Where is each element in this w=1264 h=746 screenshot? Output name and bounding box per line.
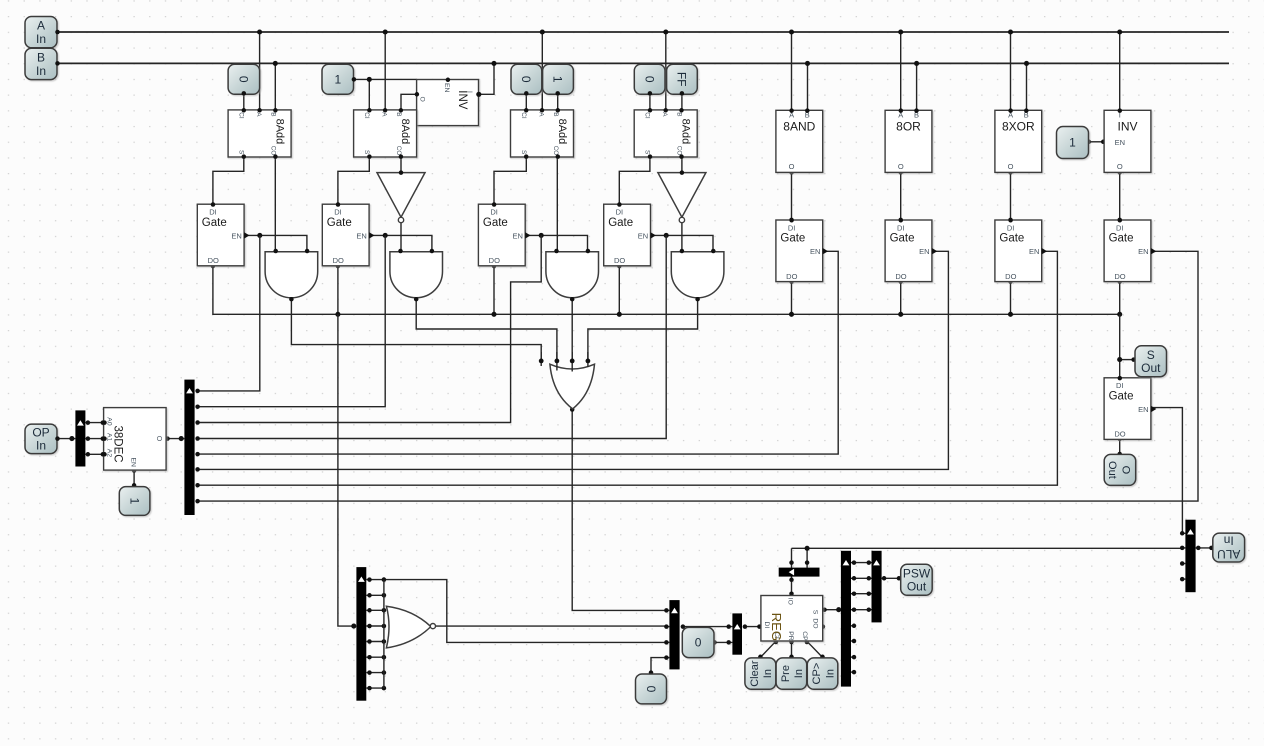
decoder 38DEC (rot 90) bbox=[104, 408, 167, 471]
svg-text:CI: CI bbox=[237, 112, 244, 119]
wire: constant 0 to flag merger pin4 bbox=[651, 658, 666, 674]
svg-text:CP: CP bbox=[801, 631, 808, 641]
NOR input pin dots bbox=[382, 577, 387, 582]
wire: AND1 out to OR4 in1 bbox=[291, 299, 541, 361]
wire: A bus tap x=666 bbox=[665, 32, 667, 110]
wire: B bus tap x=808 bbox=[807, 63, 809, 110]
svg-text:0: 0 bbox=[642, 76, 656, 83]
tri-state Gate1 bbox=[197, 204, 244, 266]
wire: decoder out1 to Gate2 EN bbox=[198, 235, 386, 406]
wire: width merger out to REG DI bbox=[745, 626, 761, 628]
svg-text:S: S bbox=[363, 150, 370, 154]
wire: constant to adder pin x=650 bbox=[649, 93, 651, 110]
AND gate cx=291 bbox=[265, 252, 318, 298]
svg-text:S: S bbox=[1147, 348, 1155, 362]
svg-text:In: In bbox=[36, 439, 46, 453]
wire: B bus tap x=275 bbox=[274, 63, 276, 110]
junction on A bus x=901 bbox=[898, 29, 903, 34]
svg-text:CP>: CP> bbox=[811, 663, 823, 685]
svg-text:DI: DI bbox=[490, 208, 498, 217]
svg-text:S: S bbox=[811, 610, 818, 615]
junction DO bus x=619 bbox=[617, 312, 622, 317]
svg-text:I: I bbox=[466, 91, 473, 93]
wire: 8Add1 CO to AND1 input bbox=[274, 157, 276, 252]
wire: decoder out3 to Gate4 EN bbox=[198, 235, 667, 438]
wire: REG PR to Pre In bbox=[791, 641, 793, 657]
svg-text:Gate: Gate bbox=[202, 217, 227, 229]
wire: adder S x=650 to Gate DI bbox=[619, 157, 650, 204]
svg-text:S: S bbox=[520, 150, 527, 154]
wire: OR4 output to flag merger bbox=[572, 409, 666, 611]
tri-state Gate4 bbox=[604, 204, 651, 266]
svg-text:DO: DO bbox=[489, 256, 500, 265]
svg-text:Gate: Gate bbox=[483, 217, 508, 229]
logic unit INV bbox=[1104, 110, 1151, 172]
svg-text:DO: DO bbox=[1005, 272, 1016, 281]
svg-text:Clear: Clear bbox=[749, 660, 761, 687]
svg-text:8Add: 8Add bbox=[680, 119, 692, 145]
input tunnel Pre In bbox=[776, 658, 807, 689]
register REG (rot 90) bbox=[761, 596, 823, 642]
svg-text:EN: EN bbox=[1029, 247, 1039, 256]
wire: to S Out tunnel bbox=[1120, 359, 1136, 361]
wire: AND4 out to OR4 in4 bbox=[588, 299, 698, 361]
junction IO line bbox=[805, 546, 810, 551]
svg-text:In: In bbox=[36, 32, 46, 46]
wire: Gate EN y=235 x=525 bbox=[525, 235, 587, 252]
wire: logic out to Gate DI x=901 bbox=[900, 172, 902, 220]
junction on B bus x=917 bbox=[914, 61, 919, 66]
adder 8Add1 (rot 90) bbox=[228, 110, 291, 157]
wire: PSW splitter to PSW Out bbox=[882, 577, 901, 579]
wire: Gate9 DO to O Out tunnel bbox=[1119, 439, 1121, 455]
svg-text:B: B bbox=[395, 112, 402, 116]
adder 8Add2 (rot 90) bbox=[354, 110, 417, 157]
wire: constant 0 to width merger pin2 bbox=[715, 641, 733, 643]
junction on A bus x=385 bbox=[383, 29, 388, 34]
svg-text:O: O bbox=[898, 162, 904, 171]
inverter after 8Add4 CO bbox=[658, 173, 706, 218]
splitter PSW 8-bit bbox=[841, 551, 851, 687]
tri-state Gate8 bbox=[1104, 220, 1151, 282]
wire: constant to adder pin x=682 bbox=[681, 93, 683, 110]
OR4 input stubs bbox=[540, 352, 542, 366]
input tunnel Clear In bbox=[745, 658, 776, 689]
wire: Gate EN y=235 x=369 bbox=[369, 235, 432, 252]
svg-text:EN: EN bbox=[231, 231, 241, 240]
wire: const 1 to INV EN bbox=[1089, 141, 1105, 143]
inverter after 8Add2 CO bbox=[377, 173, 425, 218]
wire: ALU splitter to ALU In tunnel bbox=[1196, 547, 1213, 549]
svg-text:O: O bbox=[1117, 162, 1123, 171]
constant 1 for INV EN bbox=[1057, 127, 1089, 159]
svg-text:A: A bbox=[537, 112, 544, 117]
junction on B bus x=1026 bbox=[1024, 61, 1029, 66]
svg-text:DO: DO bbox=[333, 256, 344, 265]
svg-text:CI: CI bbox=[363, 112, 370, 119]
svg-text:Gate: Gate bbox=[1109, 390, 1134, 402]
junction x=369 y=79 bbox=[367, 77, 372, 82]
wire: 8Add2 CO to inverter bbox=[400, 157, 402, 173]
svg-text:PSW: PSW bbox=[903, 566, 931, 580]
wire: AND2 out to OR4 in2 bbox=[416, 299, 557, 361]
input tunnel A In bbox=[25, 17, 57, 48]
junction DO bus x=901 bbox=[898, 312, 903, 317]
output tunnel O Out bbox=[1104, 454, 1136, 485]
svg-text:O: O bbox=[1008, 162, 1014, 171]
wire: B input bus bbox=[58, 62, 1230, 64]
svg-text:FF: FF bbox=[675, 72, 689, 87]
wire: splitter to 38DEC y=439 bbox=[85, 438, 104, 440]
wire: adder S x=369 to Gate DI bbox=[338, 157, 369, 204]
svg-text:DI: DI bbox=[1116, 223, 1124, 232]
wire: decoder splitter pin stubs bbox=[195, 389, 200, 394]
input tunnel OP In bbox=[25, 424, 57, 454]
svg-text:O: O bbox=[419, 97, 426, 102]
junction DO bus x=1010 bbox=[1008, 312, 1013, 317]
svg-text:A2: A2 bbox=[106, 449, 113, 458]
svg-text:8XOR: 8XOR bbox=[1002, 120, 1035, 134]
svg-text:DI: DI bbox=[1007, 223, 1015, 232]
pin Z splitter input bbox=[351, 624, 356, 629]
svg-text:O: O bbox=[155, 436, 162, 442]
junction on B bus x=808 bbox=[805, 61, 810, 66]
constant 0 for 8Add4 CI bbox=[634, 64, 665, 94]
wire: A bus tap x=542 bbox=[541, 32, 543, 110]
constant 1 for 38DEC EN bbox=[119, 487, 150, 516]
svg-text:Out: Out bbox=[907, 580, 927, 594]
splitter ALU 4-bit bbox=[1185, 520, 1195, 593]
constant 1 for 8Add3 B bbox=[543, 64, 574, 94]
wire: A bus tap x=792 bbox=[791, 32, 793, 110]
wire: Gate EN y=235 x=244 bbox=[244, 235, 307, 252]
wire: inverter out to AND4 input bbox=[681, 220, 683, 252]
svg-text:DO: DO bbox=[895, 272, 906, 281]
svg-text:IO: IO bbox=[786, 598, 793, 605]
wire: Gate DO to bus x=1120 bbox=[1119, 282, 1121, 315]
svg-text:A: A bbox=[661, 112, 668, 117]
tri-state Gate2 bbox=[322, 204, 369, 266]
logic unit 8OR bbox=[885, 110, 932, 172]
svg-text:EN: EN bbox=[512, 231, 522, 240]
pin REG DO stub bbox=[821, 624, 826, 629]
svg-text:INV: INV bbox=[1117, 120, 1137, 134]
svg-text:Gate: Gate bbox=[327, 217, 352, 229]
wire: REG CI to Clear In bbox=[760, 641, 776, 657]
svg-text:1: 1 bbox=[127, 498, 141, 505]
svg-text:DO: DO bbox=[811, 618, 818, 628]
svg-text:DI: DI bbox=[763, 622, 770, 629]
tri-state Gate6 bbox=[885, 220, 932, 282]
constant 0 for 8Add1 CI bbox=[228, 64, 260, 94]
svg-text:EN: EN bbox=[356, 231, 366, 240]
junction decoder splitter input bbox=[179, 436, 184, 441]
wire: Gate DO to bus x=901 bbox=[900, 282, 902, 315]
wire: IO line down to IO splitter bbox=[791, 548, 793, 568]
NOR gate zero detect bbox=[386, 606, 430, 648]
junction EN x=385 bbox=[383, 233, 388, 238]
tri-state Gate7 bbox=[995, 220, 1042, 282]
wire: inverter out to AND2 input bbox=[400, 220, 402, 252]
wire: logic out to Gate DI x=1120 bbox=[1119, 172, 1121, 220]
svg-text:OP: OP bbox=[32, 425, 49, 439]
wire: B bus tap x=917 bbox=[916, 63, 918, 110]
wire: Gate EN y=235 x=650 bbox=[651, 235, 714, 252]
wire: ALU splitter pin stubs bbox=[1182, 532, 1185, 534]
wire: logic out to Gate DI x=1010 bbox=[1010, 172, 1012, 220]
svg-text:CI: CI bbox=[520, 112, 527, 119]
junction EN x=541 bbox=[539, 233, 544, 238]
svg-text:38DEC: 38DEC bbox=[112, 426, 124, 463]
wire: adder S x=244 to Gate DI bbox=[213, 157, 244, 204]
svg-text:EN: EN bbox=[1138, 405, 1148, 414]
svg-text:EN: EN bbox=[443, 83, 450, 93]
svg-text:Gate: Gate bbox=[999, 233, 1024, 245]
splitter PSW out 4-bit bbox=[872, 551, 882, 623]
wire: decoder out6 to Gate7 EN bbox=[198, 251, 1058, 485]
svg-text:Gate: Gate bbox=[890, 233, 915, 245]
junction on A bus x=1120 bbox=[1117, 29, 1122, 34]
wire: PSW splitter bit stubs bbox=[851, 562, 872, 564]
splitter decoder 8-bit bbox=[184, 380, 194, 515]
svg-text:EN: EN bbox=[810, 247, 820, 256]
constant 0 for 8Add3 CI bbox=[511, 64, 542, 94]
NOR input rail bbox=[383, 580, 385, 689]
svg-text:DO: DO bbox=[614, 256, 625, 265]
wire: flag merger out to width merger bbox=[683, 626, 733, 628]
svg-text:Gate: Gate bbox=[608, 217, 633, 229]
svg-text:DO: DO bbox=[208, 256, 219, 265]
svg-text:REG: REG bbox=[769, 613, 784, 642]
junction DO bus x=1120 bbox=[1117, 312, 1122, 317]
svg-text:1: 1 bbox=[334, 73, 341, 87]
wire: A bus tap x=1010 bbox=[1010, 32, 1012, 110]
wire: junction down to 8Add2 CI bbox=[368, 79, 370, 110]
adder 8Add4 (rot 90) bbox=[634, 110, 697, 157]
merger flags 4-bit bbox=[669, 600, 679, 669]
splitter OP 3-bit bbox=[75, 410, 85, 466]
svg-text:DO: DO bbox=[1114, 272, 1125, 281]
svg-text:CO: CO bbox=[676, 146, 683, 156]
svg-text:CI: CI bbox=[644, 112, 651, 119]
wire: A bus tap passing between tunnels bbox=[541, 94, 543, 110]
svg-text:A: A bbox=[37, 19, 45, 33]
inverter U1 (rot 90) bbox=[417, 80, 479, 126]
wire: INV U1 output to 8Add2 B bbox=[401, 94, 417, 110]
wire: IO splitter to REG IO pin bbox=[791, 576, 793, 595]
svg-text:Pre: Pre bbox=[780, 665, 792, 682]
wire: shared DO result bus y=314 bbox=[213, 266, 1120, 314]
svg-text:B: B bbox=[552, 112, 559, 116]
svg-text:Gate: Gate bbox=[1109, 233, 1134, 245]
wire: splitter to 38DEC y=423 bbox=[85, 422, 104, 424]
svg-text:In: In bbox=[824, 669, 836, 678]
wire: Gate DO to bus x=619 bbox=[618, 266, 620, 314]
wire: Gate DO to bus x=1010 bbox=[1010, 282, 1012, 315]
wire: decoder out2 to Gate3 EN bbox=[198, 235, 542, 422]
svg-text:A: A bbox=[380, 112, 387, 117]
svg-text:8Add: 8Add bbox=[556, 119, 568, 145]
svg-text:In: In bbox=[762, 669, 774, 678]
svg-text:ALU: ALU bbox=[1217, 547, 1240, 561]
svg-text:Gate: Gate bbox=[780, 233, 805, 245]
svg-text:PR: PR bbox=[787, 631, 794, 641]
wire: NOR output to flag merger bbox=[435, 625, 666, 627]
junction DO bus x=338 bbox=[335, 312, 340, 317]
input tunnel B In bbox=[25, 48, 57, 79]
constant 0 for flag merger bbox=[636, 674, 667, 704]
wire: decoder out0 to Gate1 EN bbox=[198, 235, 260, 391]
junction EN x=666 bbox=[664, 233, 669, 238]
svg-text:CO: CO bbox=[552, 146, 559, 156]
logic unit 8AND bbox=[776, 110, 823, 172]
junction DO bus x=792 bbox=[789, 312, 794, 317]
svg-text:EN: EN bbox=[638, 231, 648, 240]
wire: A input bus bbox=[58, 31, 1230, 33]
svg-text:1: 1 bbox=[1069, 136, 1076, 150]
wire: REG CP to CP In bbox=[807, 641, 823, 657]
svg-text:8AND: 8AND bbox=[783, 120, 815, 134]
svg-text:A0: A0 bbox=[106, 417, 113, 426]
wire: constant to adder pin x=244 bbox=[243, 93, 245, 110]
AND gate cx=698 bbox=[671, 252, 724, 298]
svg-text:EN: EN bbox=[919, 247, 929, 256]
wire: adder S x=526 to Gate DI bbox=[494, 157, 526, 204]
junction on A bus x=1010 bbox=[1008, 29, 1013, 34]
output tunnel S Out bbox=[1135, 346, 1167, 377]
junction S Out bbox=[1117, 357, 1122, 362]
junction on A bus x=666 bbox=[663, 29, 668, 34]
junction on A bus x=542 bbox=[540, 29, 545, 34]
svg-text:EN: EN bbox=[129, 458, 136, 468]
wire: decoder out4 to Gate5 EN bbox=[198, 251, 839, 454]
adder 8Add3 (rot 90) bbox=[511, 110, 574, 157]
wire: Gate9 EN to ALU splitter bbox=[1151, 408, 1182, 534]
output tunnel PSW Out bbox=[901, 564, 933, 595]
svg-text:B: B bbox=[676, 112, 683, 116]
wire: 8Add3 CO to AND3 input bbox=[556, 157, 558, 252]
tri-state Gate5 bbox=[776, 220, 823, 282]
svg-text:O: O bbox=[789, 162, 795, 171]
svg-text:DI: DI bbox=[209, 208, 217, 217]
svg-text:A: A bbox=[255, 112, 262, 117]
svg-text:S: S bbox=[644, 150, 651, 154]
tri-state Gate9 bbox=[1104, 378, 1151, 440]
junction DO bus x=494 bbox=[491, 312, 496, 317]
svg-text:DI: DI bbox=[334, 208, 342, 217]
AND gate cx=572 bbox=[546, 252, 599, 298]
wire: Gate DO to bus x=792 bbox=[791, 282, 793, 315]
wire: S bus end down to S Out and Gate9 bbox=[1119, 314, 1121, 378]
svg-text:DI: DI bbox=[616, 208, 624, 217]
svg-text:DI: DI bbox=[897, 223, 905, 232]
svg-text:8Add: 8Add bbox=[399, 119, 411, 145]
svg-text:8OR: 8OR bbox=[896, 120, 921, 134]
svg-text:8Add: 8Add bbox=[274, 119, 286, 145]
svg-text:Out: Out bbox=[1141, 361, 1161, 375]
wire: A bus tap x=385 bbox=[384, 32, 386, 110]
svg-text:0: 0 bbox=[695, 636, 702, 650]
wire: A bus tap x=1120 bbox=[1119, 32, 1121, 110]
splitter IO horizontal bbox=[779, 568, 820, 577]
svg-text:CO: CO bbox=[270, 146, 277, 156]
svg-text:In: In bbox=[1224, 534, 1234, 548]
junction on B bus x=494 bbox=[491, 61, 496, 66]
svg-text:DI: DI bbox=[1116, 381, 1124, 390]
wire: 38DEC O to decoder splitter bbox=[166, 438, 184, 440]
wire: 8Add4 CO to inverter bbox=[681, 157, 683, 173]
wire: result tap down to Z splitter bbox=[338, 314, 354, 626]
junction on B bus x=275 bbox=[273, 61, 278, 66]
svg-text:EN: EN bbox=[1138, 247, 1148, 256]
svg-text:0: 0 bbox=[644, 686, 658, 693]
wire: A bus tap x=260 bbox=[259, 32, 261, 110]
OR gate 4-input bbox=[550, 364, 595, 409]
svg-text:S: S bbox=[237, 150, 244, 154]
svg-text:O: O bbox=[1119, 466, 1131, 475]
merger width 2-bit bbox=[732, 613, 742, 654]
pin Gate1 DO bbox=[211, 264, 216, 269]
wire: Z splitter bit stubs bbox=[366, 579, 384, 581]
junction OP splitter input bbox=[69, 436, 74, 441]
wire: Gate DO to bus x=338 bbox=[337, 266, 339, 314]
wire: AND3 out to OR4 in3 bbox=[571, 299, 573, 361]
logic unit 8XOR bbox=[995, 110, 1042, 172]
wire: Gate DO to bus x=494 bbox=[493, 266, 495, 314]
wire: A bus tap x=901 bbox=[900, 32, 902, 110]
tri-state Gate3 bbox=[478, 204, 525, 266]
wire: B bus to INV U1 input bbox=[479, 63, 494, 94]
svg-text:DO: DO bbox=[786, 272, 797, 281]
wire: decoder out5 to Gate6 EN bbox=[198, 251, 949, 469]
input tunnel CP In bbox=[807, 658, 838, 689]
svg-text:0: 0 bbox=[237, 76, 251, 83]
svg-text:A1: A1 bbox=[106, 433, 113, 442]
svg-text:Out: Out bbox=[1106, 461, 1118, 479]
wire: IO bus line y=548 bbox=[792, 547, 1183, 549]
wire: splitter to 38DEC y=454 bbox=[85, 453, 104, 455]
junction EN x=260 bbox=[257, 233, 262, 238]
splitter Z 8-bit bbox=[356, 567, 366, 701]
wire: constant 1 to 8Add2 CI bbox=[354, 78, 417, 80]
svg-text:In: In bbox=[36, 64, 46, 78]
wire: OP In to splitter bbox=[58, 438, 76, 440]
wire: constant to adder pin x=558 bbox=[557, 93, 559, 110]
wire: constant to adder pin x=526 bbox=[525, 93, 527, 110]
svg-text:1: 1 bbox=[551, 76, 565, 83]
svg-text:CO: CO bbox=[395, 146, 402, 156]
constant 0 for width merger bbox=[682, 627, 714, 657]
constant 1 for 8Add2 CI bbox=[322, 64, 354, 94]
constant FF for 8Add4 B bbox=[667, 64, 698, 94]
wire: logic out to Gate DI x=792 bbox=[791, 172, 793, 220]
wire: 38DEC EN to constant 1 bbox=[133, 470, 135, 486]
svg-text:DO: DO bbox=[1114, 430, 1125, 439]
junction on A bus x=260 bbox=[257, 29, 262, 34]
svg-text:B: B bbox=[37, 51, 45, 65]
junction on A bus x=792 bbox=[789, 29, 794, 34]
AND gate cx=416 bbox=[390, 252, 443, 298]
wire: sign bit to flag merger bbox=[384, 580, 667, 643]
wire: REG S to PSW splitter bbox=[823, 609, 841, 611]
wire: decoder out7 to Gate8 EN bbox=[198, 251, 1198, 501]
svg-text:INV: INV bbox=[456, 90, 468, 110]
svg-text:0: 0 bbox=[519, 76, 533, 83]
svg-text:DI: DI bbox=[788, 223, 796, 232]
svg-text:In: In bbox=[793, 669, 805, 678]
output tunnel ALU In bbox=[1213, 533, 1245, 562]
wire: B bus tap x=1026 bbox=[1026, 63, 1028, 110]
